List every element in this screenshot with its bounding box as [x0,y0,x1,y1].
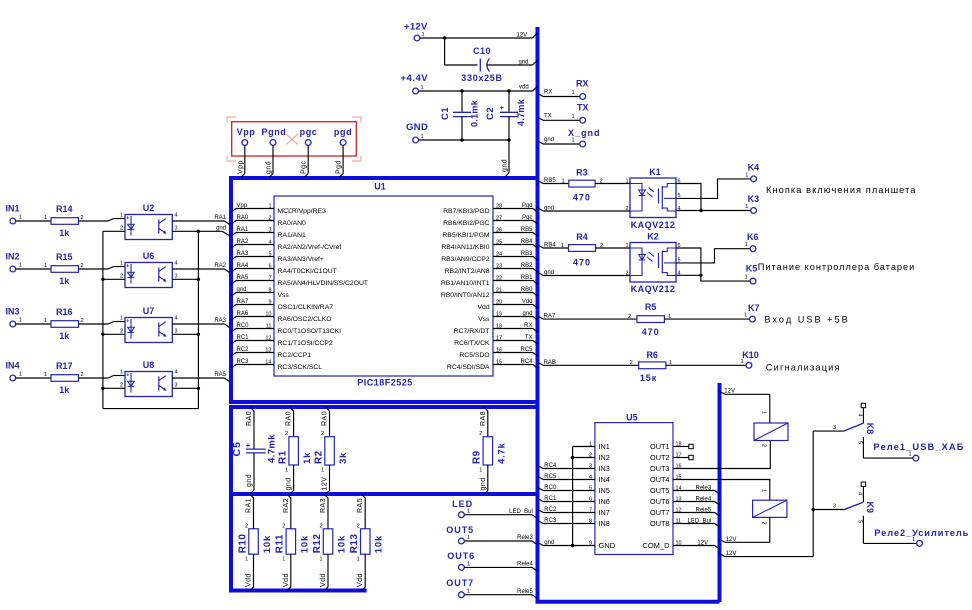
svg-text:1: 1 [467,535,470,541]
svg-text:TX: TX [577,102,589,112]
svg-text:Vdd: Vdd [283,573,290,587]
svg-text:12V: 12V [726,537,737,543]
svg-text:RC6/TX/CK: RC6/TX/CK [454,340,490,347]
svg-text:2: 2 [120,328,123,334]
svg-text:RB2/INT2/AN8: RB2/INT2/AN8 [445,268,490,275]
svg-text:1: 1 [745,172,748,178]
svg-text:3: 3 [833,504,836,510]
svg-text:U8: U8 [143,360,155,370]
svg-text:470: 470 [573,192,591,202]
svg-text:1: 1 [479,468,482,474]
svg-text:IN4: IN4 [599,475,610,484]
svg-text:RA2: RA2 [283,498,290,513]
svg-text:Vpp: Vpp [237,127,256,137]
svg-text:IN5: IN5 [599,486,610,495]
svg-text:Питание контроллера батареи: Питание контроллера батареи [758,262,915,272]
svg-text:27: 27 [496,215,502,221]
svg-text:K9: K9 [865,502,875,514]
svg-text:R2: R2 [313,450,324,464]
svg-text:C2: C2 [485,107,496,120]
svg-text:1: 1 [19,372,22,378]
svg-text:RC3/SCK/SCL: RC3/SCK/SCL [278,364,323,371]
svg-text:gnd: gnd [519,60,529,66]
svg-text:RX: RX [544,90,552,96]
svg-text:1: 1 [669,360,672,366]
svg-text:IN1: IN1 [6,204,20,214]
svg-text:GND: GND [406,122,428,133]
svg-text:1: 1 [744,313,747,319]
svg-text:RC1: RC1 [544,496,557,502]
svg-text:10k: 10k [337,535,348,553]
svg-text:RX: RX [524,323,532,329]
svg-text:Rele4: Rele4 [517,562,533,568]
svg-text:3: 3 [175,328,178,334]
svg-text:RA4/T0CKI/C1OUT: RA4/T0CKI/C1OUT [278,268,337,275]
svg-text:Vdd: Vdd [357,573,364,587]
svg-text:RC5: RC5 [544,474,557,480]
svg-text:RC7/RX/DT: RC7/RX/DT [454,328,490,335]
svg-text:C1: C1 [440,107,451,120]
svg-text:RA0: RA0 [286,411,293,426]
svg-text:RA8: RA8 [480,411,487,426]
svg-text:U6: U6 [143,251,155,261]
svg-text:Pgc: Pgc [301,160,308,174]
svg-text:RB3/AN9/CCP2: RB3/AN9/CCP2 [441,256,490,263]
svg-text:Реле1_USB_ХАБ: Реле1_USB_ХАБ [873,442,964,452]
svg-text:RA1/AN1: RA1/AN1 [278,232,307,239]
svg-text:1: 1 [120,316,123,322]
svg-text:RC3: RC3 [544,518,557,524]
svg-text:12V: 12V [517,33,528,39]
svg-text:IN6: IN6 [599,497,610,506]
svg-text:RC0/T1OSO/T13CKI: RC0/T1OSO/T13CKI [278,328,342,335]
svg-text:17: 17 [496,335,502,341]
svg-text:RC1/T1OSI/CCP2: RC1/T1OSI/CCP2 [278,340,333,347]
svg-text:1: 1 [285,468,288,474]
svg-text:U1: U1 [374,182,386,192]
svg-text:2: 2 [630,360,633,366]
svg-text:1k: 1k [59,331,70,341]
svg-text:3: 3 [268,227,271,233]
svg-text:OUT5: OUT5 [650,486,669,495]
svg-text:OUT7: OUT7 [446,578,474,588]
svg-text:2: 2 [600,178,603,184]
svg-text:10: 10 [265,311,271,317]
svg-text:+12V: +12V [404,22,428,33]
svg-text:2: 2 [321,431,324,437]
svg-text:1: 1 [467,561,470,567]
svg-text:R5: R5 [645,302,657,312]
svg-text:0.1mk: 0.1mk [469,99,479,127]
svg-text:Vdd: Vdd [246,573,253,587]
svg-text:RA5: RA5 [214,372,226,378]
svg-text:vdd: vdd [519,85,529,91]
svg-text:OSC1/CLKIN/RA7: OSC1/CLKIN/RA7 [278,304,334,311]
svg-text:RB0: RB0 [521,287,533,293]
svg-text:RA6/OSC2/CLKO: RA6/OSC2/CLKO [278,316,332,323]
svg-text:IN3: IN3 [6,307,20,317]
svg-text:K3: K3 [748,194,760,204]
svg-text:R14: R14 [56,204,73,214]
svg-text:gnd: gnd [544,540,554,546]
svg-text:15: 15 [496,359,502,365]
svg-text:470: 470 [642,327,660,337]
svg-text:+: + [126,373,129,379]
svg-text:gnd: gnd [216,226,226,232]
svg-text:2: 2 [357,523,360,529]
svg-text:K1: K1 [649,167,661,177]
svg-text:IN7: IN7 [599,508,610,517]
svg-text:Сигнализация: Сигнализация [766,363,841,373]
svg-text:OUT4: OUT4 [650,475,669,484]
svg-text:gnd: gnd [544,270,554,276]
svg-text:Rele3: Rele3 [517,535,533,541]
svg-text:RC1: RC1 [237,335,250,341]
svg-text:25: 25 [496,239,502,245]
svg-text:IN1: IN1 [599,442,610,451]
svg-text:1: 1 [761,411,767,414]
svg-text:RA2/AN2/Vref-/CVref: RA2/AN2/Vref-/CVref [278,244,342,251]
svg-text:1: 1 [561,178,564,184]
svg-text:RA3: RA3 [214,318,226,324]
svg-text:12V: 12V [724,388,735,394]
svg-text:1: 1 [44,318,47,324]
svg-text:1: 1 [745,204,748,210]
svg-text:R12: R12 [312,534,323,554]
svg-text:+: + [126,264,129,270]
svg-text:LED_Bul: LED_Bul [509,509,533,515]
svg-text:OUT6: OUT6 [650,497,669,506]
svg-text:RC2: RC2 [237,347,250,353]
svg-text:2: 2 [120,273,123,279]
svg-text:RC0: RC0 [237,323,250,329]
svg-text:Vdd: Vdd [320,573,327,587]
svg-text:7: 7 [268,275,271,281]
svg-text:IN4: IN4 [6,361,20,371]
svg-text:RB2: RB2 [521,263,533,269]
svg-text:RB5/KBI1/PGM: RB5/KBI1/PGM [442,232,490,239]
svg-text:1: 1 [120,213,123,219]
svg-text:KAQV212: KAQV212 [631,220,676,230]
svg-text:Кнопка включения планшета: Кнопка включения планшета [766,185,917,195]
svg-text:X_gnd: X_gnd [568,128,601,138]
svg-text:IN8: IN8 [599,519,610,528]
svg-text:RA0: RA0 [322,411,329,426]
svg-text:TX: TX [525,335,533,341]
svg-text:RB4/AN11/KBI0: RB4/AN11/KBI0 [441,244,489,251]
svg-text:+4.4V: +4.4V [401,73,429,84]
svg-text:RC4: RC4 [544,463,557,469]
svg-text:RA1: RA1 [214,215,226,221]
svg-text:R13: R13 [349,534,360,554]
svg-text:1: 1 [467,509,470,515]
svg-text:pgd: pgd [334,127,352,137]
svg-text:KAQV212: KAQV212 [631,284,676,294]
svg-text:2: 2 [761,522,767,525]
svg-text:+: + [126,319,129,325]
svg-text:Vss: Vss [278,292,290,299]
svg-text:R6: R6 [646,350,658,360]
svg-text:1: 1 [44,372,47,378]
svg-text:RA5: RA5 [357,498,364,513]
svg-text:RC2: RC2 [544,507,557,513]
svg-text:Vpp: Vpp [237,203,248,209]
svg-text:2: 2 [120,225,123,231]
svg-text:C10: C10 [473,46,491,56]
svg-text:2: 2 [761,444,767,447]
svg-text:OUT6: OUT6 [447,551,475,561]
svg-text:26: 26 [496,227,502,233]
svg-text:10k: 10k [299,535,310,553]
svg-text:2: 2 [81,372,84,378]
svg-text:RB4: RB4 [521,239,533,245]
svg-text:3k: 3k [338,452,349,464]
svg-text:RC0: RC0 [544,485,557,491]
svg-text:1: 1 [668,314,671,320]
svg-text:1k: 1k [59,228,70,238]
svg-text:11: 11 [266,323,272,329]
svg-text:1: 1 [19,215,22,221]
svg-text:1: 1 [245,557,248,563]
svg-text:Pgd: Pgd [522,203,533,209]
svg-text:PIC18F2525: PIC18F2525 [357,378,413,388]
svg-text:RC4/SDI/SDA: RC4/SDI/SDA [447,364,490,371]
svg-text:4: 4 [175,316,178,322]
svg-text:4.7mk: 4.7mk [267,434,278,463]
svg-text:1: 1 [625,178,628,184]
svg-text:4: 4 [175,213,178,219]
svg-text:K8: K8 [865,423,875,435]
svg-text:1: 1 [19,263,22,269]
svg-text:R15: R15 [56,252,73,262]
svg-text:R9: R9 [472,450,483,464]
svg-text:6: 6 [268,263,271,269]
svg-text:R1: R1 [277,450,288,464]
svg-text:IN3: IN3 [599,464,610,473]
svg-text:Rele5: Rele5 [696,507,712,513]
svg-text:1: 1 [268,203,271,209]
svg-text:2: 2 [282,523,285,529]
svg-text:OUT2: OUT2 [650,453,669,462]
svg-text:RB0/INT0/AN12: RB0/INT0/AN12 [441,292,490,299]
svg-text:15к: 15к [640,373,657,383]
svg-text:LED_Bul: LED_Bul [688,518,712,524]
svg-text:1k: 1k [59,385,70,395]
svg-text:gnd: gnd [502,159,509,172]
svg-text:GND: GND [599,541,616,550]
svg-text:Rele3: Rele3 [696,485,712,491]
svg-text:R10: R10 [237,534,248,554]
svg-text:RB1/AN10/INT1: RB1/AN10/INT1 [441,280,490,287]
svg-text:gnd: gnd [544,137,554,143]
svg-text:RA0: RA0 [246,411,253,426]
svg-text:K10: K10 [742,350,759,360]
svg-text:1k: 1k [302,452,313,464]
svg-text:3: 3 [175,382,178,388]
svg-text:1: 1 [44,263,47,269]
svg-text:1: 1 [282,557,285,563]
svg-text:4: 4 [857,492,863,495]
svg-text:3: 3 [175,225,178,231]
svg-text:R3: R3 [576,168,588,178]
svg-text:4: 4 [175,261,178,267]
svg-text:OUT3: OUT3 [650,464,669,473]
svg-text:2: 2 [245,523,248,529]
svg-text:4: 4 [175,370,178,376]
svg-text:12V: 12V [697,540,708,546]
svg-text:RC2/CCP1: RC2/CCP1 [278,352,312,359]
svg-text:330х25В: 330х25В [461,73,502,83]
svg-text:5: 5 [857,520,863,523]
svg-text:RC5: RC5 [520,347,533,353]
svg-text:K5: K5 [746,264,758,274]
svg-text:gnd: gnd [480,477,487,490]
svg-text:Vdd: Vdd [522,299,533,305]
svg-text:5: 5 [857,441,863,444]
svg-text:RB7/KBI3/PGD: RB7/KBI3/PGD [443,208,490,215]
svg-text:U7: U7 [143,306,155,316]
svg-text:Реле2_Усилитель: Реле2_Усилитель [874,528,969,538]
svg-text:1: 1 [745,275,748,281]
svg-text:RA3: RA3 [320,498,327,513]
svg-text:gnd: gnd [522,311,532,317]
svg-text:Pgnd: Pgnd [262,127,287,137]
svg-text:1k: 1k [59,276,70,286]
svg-text:RA2: RA2 [214,263,226,269]
svg-text:Вход USB +5В: Вход USB +5В [764,315,849,325]
svg-text:2: 2 [268,215,271,221]
svg-text:24: 24 [496,251,502,257]
svg-text:1: 1 [421,85,424,91]
svg-text:RA2: RA2 [237,239,249,245]
svg-text:2: 2 [625,206,628,212]
svg-text:1: 1 [421,134,424,140]
svg-text:1: 1 [571,90,574,96]
svg-text:1: 1 [319,557,322,563]
svg-text:1: 1 [19,318,22,324]
svg-text:4: 4 [268,239,271,245]
svg-text:Vpp: Vpp [237,160,244,174]
svg-text:RA3: RA3 [237,251,249,257]
svg-text:RA4: RA4 [237,263,249,269]
svg-text:U2: U2 [143,203,155,213]
svg-text:1: 1 [422,32,425,38]
svg-text:+: + [246,441,251,450]
svg-text:2: 2 [319,523,322,529]
svg-text:+: + [126,216,129,222]
svg-text:R4: R4 [576,232,588,242]
svg-text:Rele4: Rele4 [696,496,712,502]
svg-text:18: 18 [496,323,502,329]
svg-text:gnd: gnd [266,161,273,174]
svg-text:R16: R16 [56,307,73,317]
svg-text:10k: 10k [374,535,385,553]
svg-text:K4: K4 [748,163,760,173]
svg-text:K7: K7 [748,303,760,313]
svg-text:12V: 12V [322,477,329,491]
svg-text:Rele5: Rele5 [517,589,533,595]
svg-text:1: 1 [625,243,628,249]
svg-text:OUT1: OUT1 [650,442,669,451]
svg-text:2: 2 [81,318,84,324]
svg-text:RA3/AN3/Vref+: RA3/AN3/Vref+ [278,256,324,263]
svg-text:LED: LED [452,499,473,509]
svg-text:20: 20 [496,299,502,305]
svg-text:gnd: gnd [286,477,293,490]
svg-text:RC3: RC3 [237,359,250,365]
svg-text:RA0/AN0: RA0/AN0 [278,220,307,227]
svg-text:RX: RX [576,79,589,89]
svg-text:5: 5 [268,251,271,257]
svg-text:gnd: gnd [544,205,554,211]
svg-text:OUT8: OUT8 [650,519,669,528]
svg-text:16: 16 [496,347,502,353]
svg-text:1: 1 [561,243,564,249]
svg-text:OUT7: OUT7 [650,508,669,517]
svg-text:1: 1 [761,489,767,492]
svg-text:RA5: RA5 [237,275,249,281]
svg-text:Vdd: Vdd [478,304,490,311]
svg-text:1: 1 [571,114,574,120]
svg-text:2: 2 [285,431,288,437]
svg-text:K2: K2 [647,231,659,241]
svg-text:19: 19 [496,311,502,317]
svg-text:RA6: RA6 [237,311,249,317]
svg-text:1: 1 [357,557,360,563]
svg-text:RA1: RA1 [246,498,253,513]
svg-text:3: 3 [833,425,836,431]
svg-text:4.7k: 4.7k [496,442,507,464]
svg-text:MCLR/Vpp/RE3: MCLR/Vpp/RE3 [278,208,327,215]
svg-text:22: 22 [496,275,502,281]
svg-text:RB3: RB3 [521,251,533,257]
svg-text:4: 4 [857,414,863,417]
svg-text:1: 1 [467,589,470,595]
svg-text:1: 1 [571,138,574,144]
svg-text:12: 12 [265,335,271,341]
svg-text:Vss: Vss [478,316,490,323]
svg-text:2: 2 [81,263,84,269]
svg-text:IN2: IN2 [6,252,20,262]
svg-text:1: 1 [745,242,748,248]
svg-text:IN2: IN2 [599,453,610,462]
svg-text:1: 1 [120,370,123,376]
svg-text:21: 21 [496,287,502,293]
svg-text:2: 2 [479,431,482,437]
svg-text:R17: R17 [56,361,73,371]
svg-text:8: 8 [268,287,271,293]
svg-text:28: 28 [496,203,502,209]
svg-text:10k: 10k [262,535,273,553]
svg-text:3: 3 [175,273,178,279]
svg-text:Pgd: Pgd [336,160,343,174]
svg-text:R11: R11 [275,534,286,553]
svg-text:RC4: RC4 [520,359,533,365]
svg-text:Pgc: Pgc [522,215,532,221]
svg-text:gnd: gnd [246,474,253,487]
svg-text:RA1: RA1 [237,227,249,233]
svg-text:1: 1 [44,215,47,221]
svg-text:gnd: gnd [237,287,247,293]
svg-text:RB1: RB1 [521,275,533,281]
svg-text:470: 470 [573,258,591,268]
svg-text:1: 1 [120,261,123,267]
svg-text:K6: K6 [747,232,759,242]
svg-text:4.7mk: 4.7mk [516,98,526,126]
svg-text:1: 1 [321,468,324,474]
svg-text:OUT5: OUT5 [446,525,474,535]
svg-text:2: 2 [120,382,123,388]
